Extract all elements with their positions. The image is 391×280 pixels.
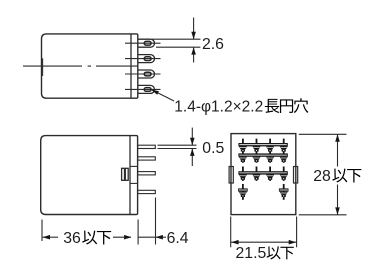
pin row3 col2 — [252, 174, 260, 177]
flat pin 4 view B — [138, 190, 156, 193]
dimension 6.4 (pin length) — [138, 198, 166, 245]
dimension 21.5 or less (width) — [231, 217, 297, 248]
dimension 0.5 (pin thickness) — [158, 128, 197, 166]
svg-text:6.4: 6.4 — [167, 230, 189, 247]
pin row2 col1 — [239, 157, 247, 160]
pin row2 col4 — [280, 157, 288, 160]
pin 3 view A (round terminal with oblong hole) — [125, 70, 161, 78]
svg-text:0.5: 0.5 — [202, 140, 224, 157]
pin row3 col4 — [280, 174, 288, 177]
relay body side view (top view A) — [42, 34, 138, 98]
dimension 2.6 (pin width) — [152, 18, 200, 63]
pin row4 col1 — [238, 188, 248, 191]
flat pin 2 view B — [138, 157, 156, 160]
base plate inner line view A — [130, 34, 132, 98]
pin row3 col3 — [266, 174, 274, 177]
chain centerline view A — [23, 65, 138, 67]
base step division lines view B — [130, 165, 138, 167]
pin row1 col2 — [252, 146, 260, 149]
svg-text:28: 28 — [313, 168, 331, 185]
pin 2 view A (round terminal with oblong hole) — [125, 55, 161, 63]
svg-text:1.4-φ1.2×2.2: 1.4-φ1.2×2.2 — [174, 99, 263, 116]
pin 1 view A (round terminal with oblong hole) — [125, 39, 161, 47]
leader line and label 1.4-phi1.2x2.2 oblong hole — [151, 89, 174, 101]
pin row4 col4 — [279, 188, 289, 191]
right side tab — [294, 167, 298, 184]
flat pin 3 view B — [138, 172, 156, 175]
terminal bar row 1 — [238, 143, 287, 146]
relay body side view (bottom view B) — [41, 136, 138, 215]
dimension 28 or less (height) — [299, 134, 347, 215]
left side tab — [229, 167, 233, 184]
terminal bar row 2 — [238, 153, 287, 156]
relay body bottom view (view C) — [231, 134, 296, 215]
base plate inner line view B — [129, 136, 131, 215]
pin column verticals row 4 (outer only) — [242, 184, 244, 200]
pin row1 col4 — [280, 146, 288, 149]
svg-text:2.6: 2.6 — [202, 36, 224, 53]
pin column verticals row 3 — [242, 167, 244, 181]
pin column verticals rows 1-2 — [242, 139, 244, 163]
dimension 36 or less (body length) — [41, 220, 43, 242]
pin row1 col1 — [239, 146, 247, 149]
flat pin 1 view B — [138, 145, 156, 148]
pin row1 col3 — [266, 146, 274, 149]
centerline cross tick — [42, 58, 44, 76]
pin row2 col2 — [252, 157, 260, 160]
svg-text:36: 36 — [63, 230, 81, 247]
pin row2 col3 — [266, 157, 274, 160]
latch detail view B — [122, 168, 129, 180]
terminal bar row 3 — [238, 171, 287, 174]
pin 4 view A (round terminal with oblong hole) — [125, 85, 161, 93]
pin row3 col1 — [239, 174, 247, 177]
svg-text:21.5: 21.5 — [236, 245, 267, 262]
